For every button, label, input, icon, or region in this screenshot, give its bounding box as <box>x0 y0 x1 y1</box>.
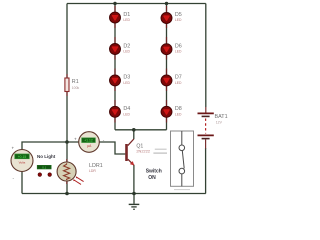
svg-text:LDR: LDR <box>89 169 96 173</box>
svg-text:D1: D1 <box>123 12 130 18</box>
svg-text:-: - <box>13 176 15 181</box>
svg-text:+0.15: +0.15 <box>18 155 27 159</box>
svg-text:LED: LED <box>175 50 182 54</box>
svg-text:+: + <box>74 136 77 141</box>
svg-text:Volts: Volts <box>19 161 26 165</box>
svg-text:ON: ON <box>148 175 156 181</box>
svg-text:+: + <box>12 145 15 150</box>
svg-text:LED: LED <box>175 18 182 22</box>
svg-text:D5: D5 <box>175 12 182 18</box>
svg-text:D2: D2 <box>123 43 130 49</box>
svg-text:LED: LED <box>123 18 130 22</box>
svg-text:R1: R1 <box>72 79 79 85</box>
svg-text:D7: D7 <box>175 75 182 81</box>
svg-text:LED: LED <box>123 112 130 116</box>
svg-text:D3: D3 <box>123 75 130 81</box>
svg-text:D6: D6 <box>175 43 182 49</box>
svg-text:+1.12: +1.12 <box>84 139 93 143</box>
svg-text:LDR1: LDR1 <box>89 163 103 169</box>
svg-text:12V: 12V <box>216 121 223 125</box>
svg-text:2N2222: 2N2222 <box>136 149 150 154</box>
svg-text:0.1: 0.1 <box>42 165 46 169</box>
svg-text:LED: LED <box>123 81 130 85</box>
svg-text:LED: LED <box>175 81 182 85</box>
svg-text:BAT1: BAT1 <box>215 114 228 120</box>
svg-text:D4: D4 <box>123 106 130 112</box>
svg-text:D8: D8 <box>175 106 182 112</box>
svg-text:LED: LED <box>123 50 130 54</box>
svg-text:LED: LED <box>175 112 182 116</box>
svg-text:Switch: Switch <box>146 169 162 175</box>
svg-text:100k: 100k <box>72 86 80 90</box>
svg-text:No Light: No Light <box>37 154 56 159</box>
